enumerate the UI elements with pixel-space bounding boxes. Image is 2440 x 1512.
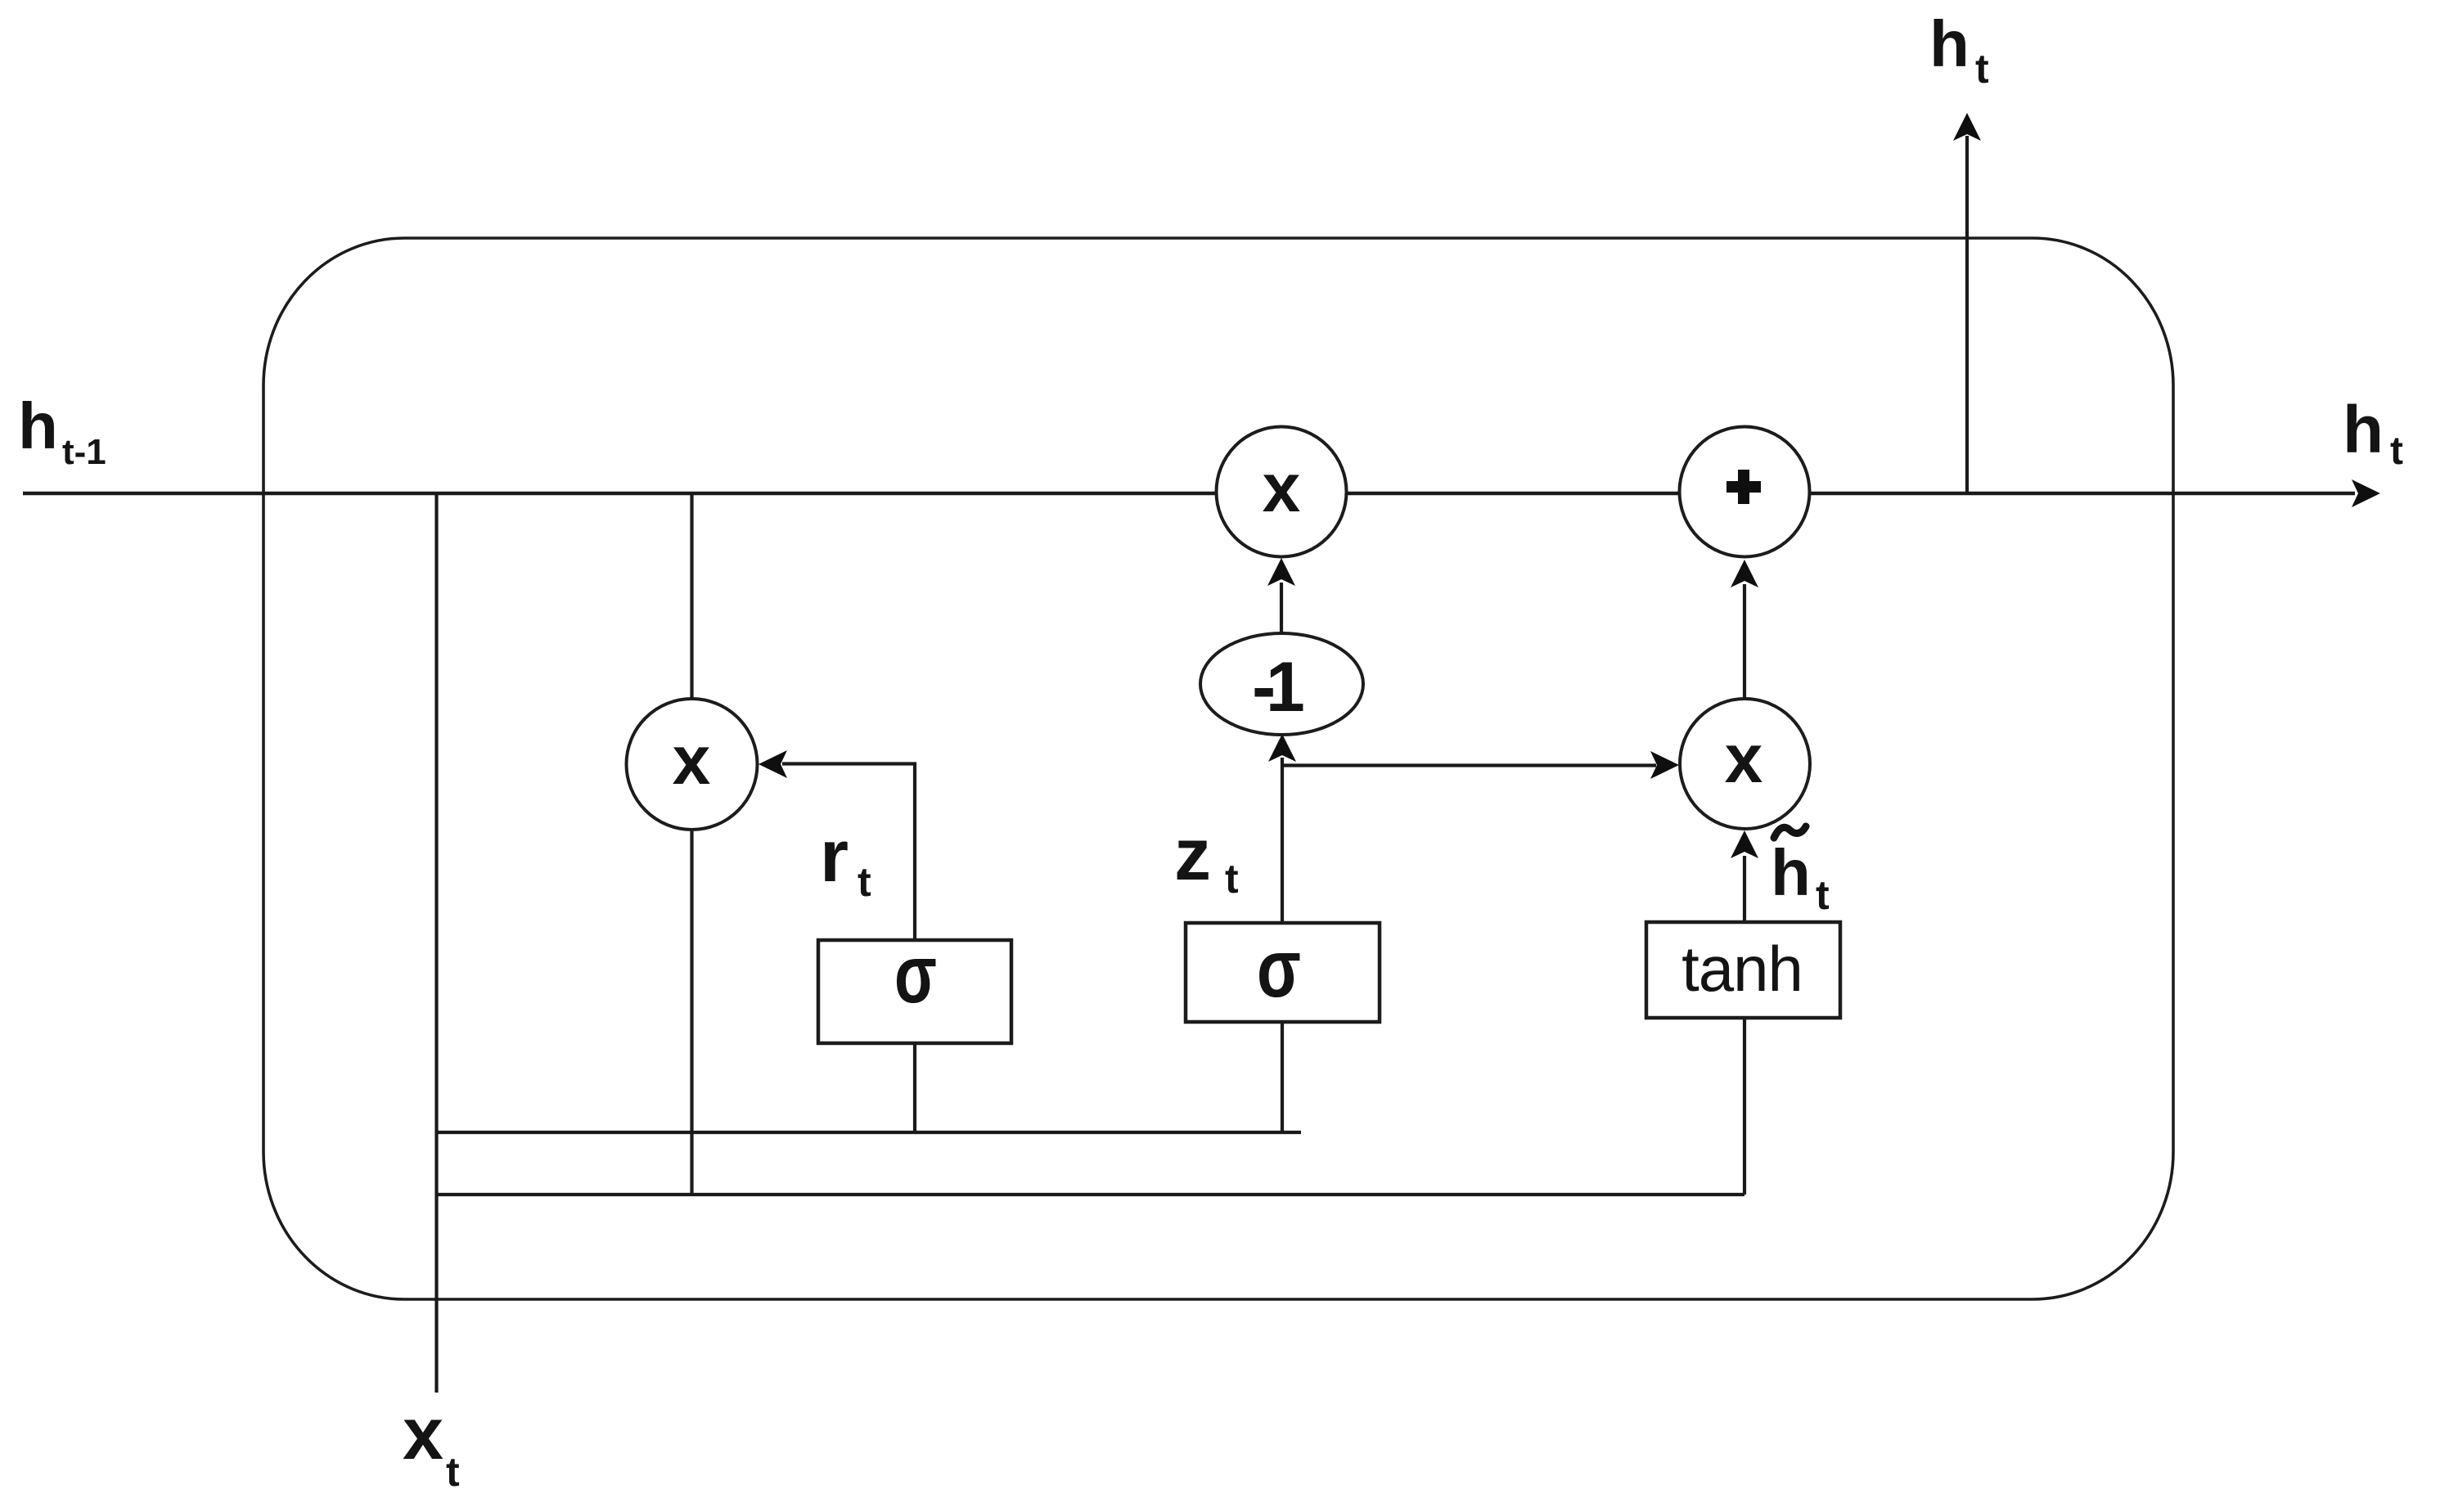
svg-text:σ: σ [1257, 923, 1301, 1015]
arrowhead: into state multiply node [1267, 558, 1295, 586]
wire: tanh output up to candidate multiply node [1743, 856, 1746, 922]
arrowhead: into add node [1731, 560, 1758, 587]
svg-text:x: x [1725, 720, 1763, 797]
wire: main state line h_t-1 to h_t [23, 492, 2355, 495]
wire: h_t vertical output branch [1965, 136, 1969, 493]
GRU cell boundary (rounded rectangle) [263, 238, 2173, 1299]
wire: tanh bottom input from bus [1743, 1018, 1746, 1195]
arrowhead: h_t output right [2352, 479, 2380, 507]
svg-text:t: t [1975, 46, 1989, 92]
svg-text:h: h [1771, 836, 1811, 909]
multiply node on state line (x) [1217, 427, 1347, 557]
arrowhead: z_t into candidate multiply node [1650, 751, 1679, 779]
arrowhead: r_t into reset multiply node [759, 750, 787, 778]
wire: x_t lower bus to tanh [437, 1193, 1745, 1196]
svg-text:t: t [1225, 856, 1239, 902]
svg-text:x: x [673, 722, 711, 799]
svg-text:σ: σ [894, 929, 937, 1020]
-1 node (ellipse) [1200, 633, 1363, 735]
svg-text:r: r [820, 816, 849, 898]
wire: candidate multiply node up to add node [1743, 584, 1746, 698]
arrowhead: h_t top output [1953, 113, 1981, 141]
svg-text:t-1: t-1 [62, 432, 106, 472]
candidate multiply node (x) [1680, 699, 1810, 829]
svg-text:z: z [1174, 814, 1211, 896]
candidate tanh box [1646, 922, 1840, 1018]
wire: x_t input vertical [434, 493, 438, 1393]
wire: -1 node up to state multiply node [1280, 583, 1283, 633]
arrowhead: h-tilde into candidate multiply node [1731, 830, 1758, 858]
wire: x_t distribution bus to sigma gates [437, 1131, 1302, 1134]
wire: r_t gate wire from sigma up and left into reset multiply node [782, 764, 915, 943]
svg-text:t: t [2390, 430, 2403, 473]
add node on state line (+) [1680, 427, 1810, 557]
reset multiply node (x) [627, 699, 758, 830]
update gate sigma box [1186, 923, 1380, 1022]
wire: reset sigma output down to bus [913, 1043, 916, 1132]
svg-text:h: h [1929, 7, 1970, 80]
svg-text:t: t [1816, 872, 1830, 918]
reset gate sigma box [818, 940, 1011, 1043]
arrowhead: z_t into -1 node [1268, 734, 1296, 762]
svg-text:t: t [446, 1449, 460, 1495]
wire: z_t branch right to candidate multiply node [1282, 763, 1656, 767]
svg-text:t: t [858, 859, 871, 905]
wire: h_t-1 branch down to reset multiply node [690, 493, 693, 1195]
wire: z_t vertical from update sigma up to -1 node [1281, 758, 1284, 942]
wire: update sigma output down to bus [1281, 1022, 1284, 1132]
svg-text:1: 1 [1266, 648, 1305, 727]
svg-text:h: h [2343, 393, 2384, 467]
svg-text:h: h [18, 389, 58, 462]
svg-text:x: x [403, 1393, 443, 1475]
svg-text:tanh: tanh [1681, 933, 1803, 1005]
svg-text:x: x [1263, 449, 1301, 526]
